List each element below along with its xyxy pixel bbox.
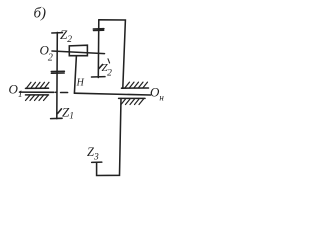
prime of z2' [108, 59, 110, 63]
mesh ticks z2/z1 [51, 70, 64, 72]
svg-text:H: H [76, 78, 85, 89]
carrier H arm [74, 56, 76, 93]
shaft line of gears z2-z1 [56, 32, 59, 118]
input shaft O1 [20, 91, 55, 93]
ring gear z3 lower rim tick [92, 161, 102, 163]
hatching of left upper support [27, 82, 50, 88]
hatching of left lower support [26, 95, 49, 100]
ring gear z3 lower bracket [97, 98, 121, 175]
carrier bearing box [69, 45, 87, 56]
svg-text:б): б) [34, 6, 47, 22]
gear z2' / ring z3 upper rim line [97, 20, 100, 78]
leader of label z2' [99, 65, 103, 69]
output shaft of carrier H [74, 93, 150, 95]
mesh ticks z2'/z3 [93, 28, 104, 30]
gear z2 top rim tick [52, 32, 63, 34]
leader of label z1 [58, 109, 62, 114]
left lower support line [26, 94, 49, 96]
left upper support line [26, 87, 49, 89]
right upper support line [122, 87, 149, 89]
hatching of right lower support [121, 99, 144, 105]
gear z2' bottom rim tick [92, 76, 106, 78]
right lower support line [119, 97, 145, 99]
gear z1 bottom rim tick [51, 117, 63, 119]
hatching of right upper support [125, 82, 148, 88]
center line dash-dot [56, 91, 57, 93]
ring gear z3 upper bracket [99, 20, 126, 88]
satellite axis O2 line [52, 51, 105, 54]
